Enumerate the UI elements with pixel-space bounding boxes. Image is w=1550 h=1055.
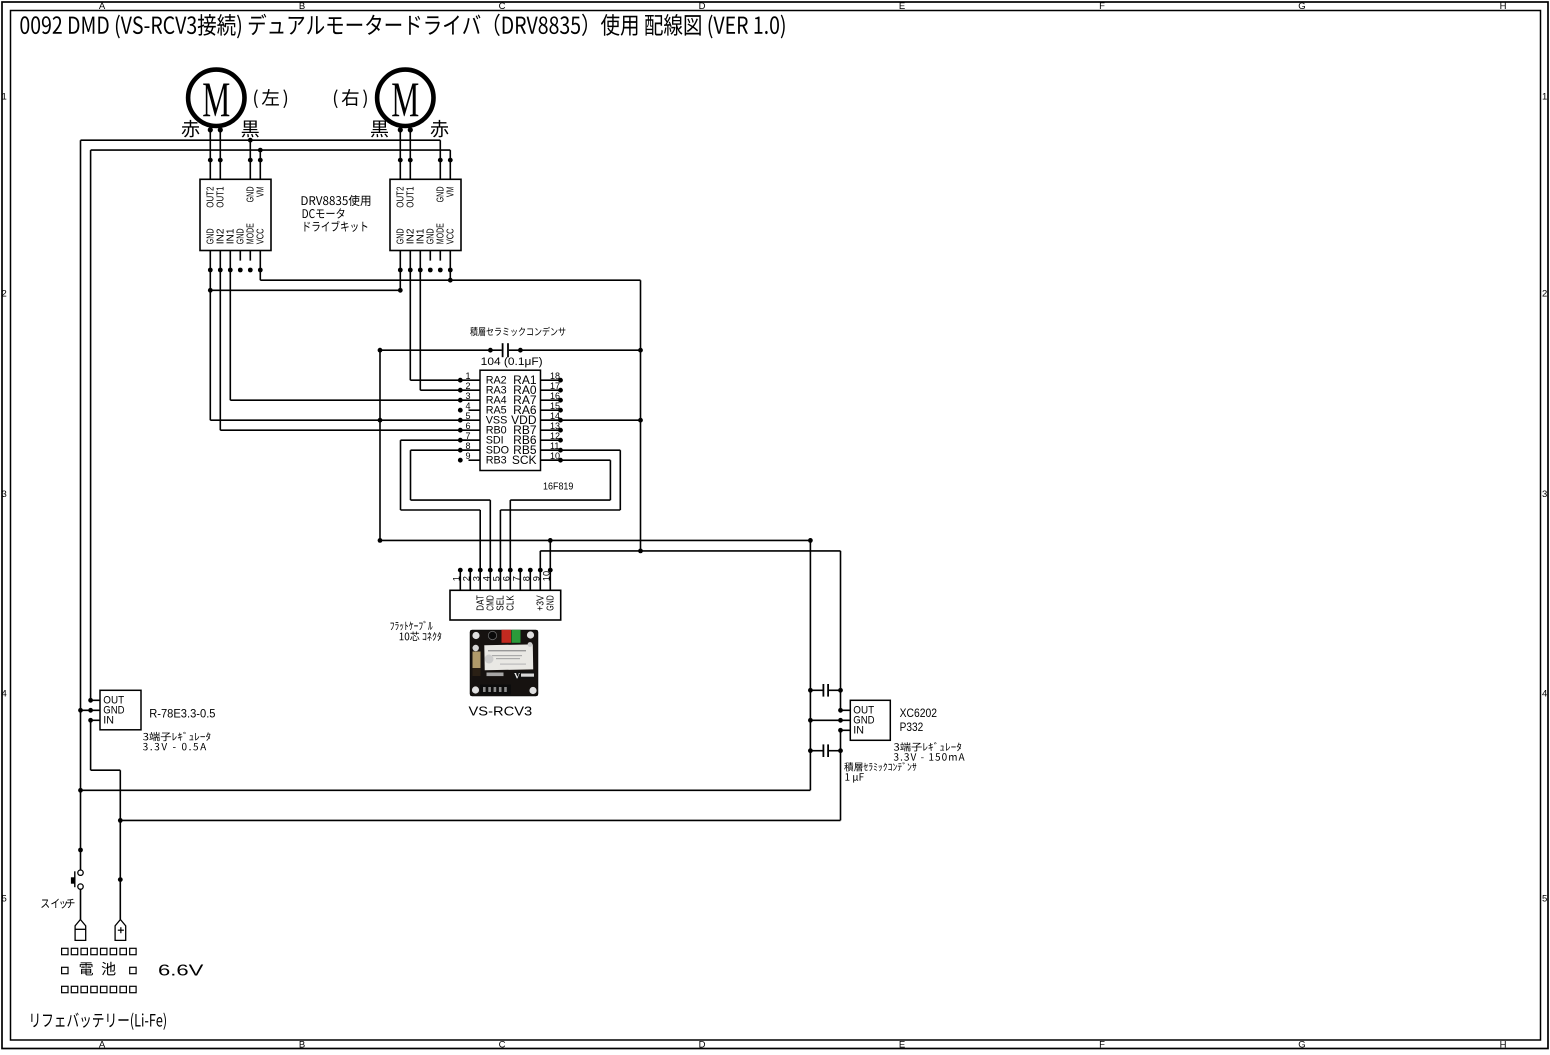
svg-text:18: 18 bbox=[550, 371, 560, 381]
text DRV8835 kit note bbox=[302, 195, 371, 206]
wire +3V rail y551 bbox=[540, 550, 840, 552]
svg-text:4: 4 bbox=[1542, 689, 1547, 700]
wire switch to battery- bbox=[80, 889, 82, 920]
wire motorR lead2 to OUT1 bbox=[409, 130, 411, 179]
pin 14 VDD bbox=[541, 419, 561, 421]
capacitor C1 bbox=[380, 349, 502, 351]
wire VCC rail bbox=[260, 279, 640, 281]
svg-text:5: 5 bbox=[465, 411, 470, 421]
junction dot GND bus left module bbox=[248, 138, 253, 143]
pin 13 RB7 bbox=[541, 429, 561, 431]
svg-text:1: 1 bbox=[465, 371, 470, 381]
svg-text:VS-RCV3: VS-RCV3 bbox=[469, 703, 533, 718]
svg-text:XC6202: XC6202 bbox=[900, 706, 938, 720]
label aka right bbox=[431, 120, 449, 138]
junction dot +3V x640 bbox=[638, 549, 643, 554]
connector pin 9 bbox=[538, 568, 543, 573]
wire GND right vertical x810 bbox=[809, 540, 811, 790]
pin 10 SCK bbox=[541, 459, 561, 461]
svg-text:2: 2 bbox=[462, 576, 472, 581]
pin 1 RA2 bbox=[460, 379, 480, 381]
junction dot XC GND bbox=[808, 718, 813, 723]
battery dashed outline bbox=[62, 948, 68, 954]
connector pin 6 bbox=[508, 568, 513, 573]
junction dot VBAT left bbox=[118, 818, 123, 823]
svg-text:5: 5 bbox=[1542, 894, 1547, 905]
svg-text:G: G bbox=[1298, 1, 1305, 12]
pin 5 VSS bbox=[460, 419, 480, 421]
IC U3 16F819 box bbox=[480, 370, 541, 470]
svg-text:OUT1: OUT1 bbox=[216, 187, 227, 208]
wire marker dot switch bbox=[78, 848, 83, 853]
svg-text:A: A bbox=[99, 1039, 106, 1050]
stub U-left GND2 bbox=[239, 251, 241, 261]
battery label bbox=[80, 962, 116, 976]
svg-text:IN: IN bbox=[853, 725, 864, 737]
junction dot x810 cap2 bbox=[808, 748, 813, 753]
svg-text:6.6V: 6.6V bbox=[158, 963, 204, 980]
junction dot VM bus left module bbox=[258, 148, 263, 153]
wire U-left VCC down bbox=[259, 251, 261, 281]
svg-text:D: D bbox=[699, 1, 706, 12]
svg-text:2: 2 bbox=[465, 381, 470, 391]
wire U-right IN1 down bbox=[419, 251, 421, 391]
svg-text:SCK: SCK bbox=[512, 453, 537, 467]
svg-text:15: 15 bbox=[550, 401, 560, 411]
junction dot GND x810 bbox=[808, 538, 813, 543]
wire +3V x840 upper bbox=[840, 551, 842, 710]
svg-text:B: B bbox=[299, 1, 305, 12]
wire GND bottom rail bbox=[81, 789, 811, 791]
wire RB0 from U-left IN2 bbox=[220, 429, 460, 431]
svg-text:4: 4 bbox=[465, 401, 470, 411]
svg-text:4: 4 bbox=[482, 576, 492, 581]
junction dot x840 cap1 bbox=[838, 688, 843, 693]
pin 7 SDI bbox=[460, 439, 480, 441]
svg-text:3: 3 bbox=[1542, 489, 1547, 500]
svg-text:16F819: 16F819 bbox=[543, 480, 574, 492]
battery type note bbox=[31, 1013, 166, 1030]
svg-text:C: C bbox=[499, 1039, 506, 1050]
svg-text:GND: GND bbox=[546, 595, 557, 610]
wire VM bus to U-left VM bbox=[259, 150, 261, 179]
pin 11 RB5 bbox=[541, 449, 561, 451]
pin 12 RB6 bbox=[541, 439, 561, 441]
regulator U5 XC6202 box bbox=[850, 700, 890, 740]
label hidari bbox=[254, 89, 287, 108]
svg-text:IN: IN bbox=[103, 715, 114, 727]
svg-text:VCC: VCC bbox=[256, 228, 267, 244]
wire RB5 SEL loop bbox=[541, 449, 621, 451]
svg-text:13: 13 bbox=[550, 421, 560, 431]
svg-text:H: H bbox=[1500, 1039, 1507, 1050]
connector pin 7 bbox=[519, 570, 521, 590]
svg-text:6: 6 bbox=[502, 576, 512, 581]
svg-text:10: 10 bbox=[542, 571, 552, 581]
connector pin 2 bbox=[469, 570, 471, 590]
wire motorR lead1 to OUT2 bbox=[399, 130, 401, 179]
stub U-left MODE bbox=[249, 251, 251, 261]
regulator U4 R-78E box bbox=[100, 690, 141, 730]
wire pin9 +3V riser bbox=[539, 551, 541, 590]
svg-text:7: 7 bbox=[512, 576, 522, 581]
wire VDD to x640 bbox=[541, 419, 641, 421]
stub U-right GND2 bbox=[429, 251, 431, 261]
connector pin 5 bbox=[498, 568, 503, 573]
wire SDO loop bbox=[411, 449, 481, 451]
svg-text:P332: P332 bbox=[900, 720, 924, 734]
wire RA4 from U-left IN1 bbox=[230, 399, 460, 401]
wire marker dot battery+ bbox=[118, 877, 123, 882]
svg-text:E: E bbox=[899, 1, 905, 12]
svg-text:14: 14 bbox=[550, 411, 560, 421]
wire XC IN x840 lower bbox=[840, 730, 842, 820]
pin 16 RA7 bbox=[541, 399, 561, 401]
svg-text:1: 1 bbox=[452, 576, 462, 581]
wire VM bus corner to U-right VM bbox=[449, 150, 451, 179]
svg-text:M: M bbox=[391, 73, 419, 128]
wire battery+ vertical bbox=[119, 770, 121, 919]
svg-text:OUT1: OUT1 bbox=[406, 187, 417, 208]
wire R78 IN down bbox=[90, 720, 92, 770]
wire GND vertical x380 bbox=[379, 350, 381, 540]
wire motorL lead2 to OUT1 bbox=[219, 130, 221, 179]
wire U-left GND down bbox=[209, 251, 211, 421]
capacitor C2 1uF top bbox=[810, 689, 822, 691]
pin 15 RA6 bbox=[541, 409, 561, 411]
label kuro right bbox=[371, 121, 388, 138]
bus GND top bbox=[81, 139, 441, 141]
svg-text:1: 1 bbox=[1542, 92, 1547, 103]
svg-text:11: 11 bbox=[550, 441, 559, 451]
wire U-left IN1 down bbox=[229, 251, 231, 401]
junction dot R78 GND bbox=[78, 708, 83, 713]
svg-text:3: 3 bbox=[465, 391, 470, 401]
wire GND bus corner to U-right GND bbox=[439, 140, 441, 179]
svg-text:V: V bbox=[514, 671, 521, 681]
wire U-left IN2 down bbox=[219, 251, 221, 431]
wire motorL lead1 to OUT2 bbox=[209, 130, 211, 179]
pin 3 RA4 bbox=[460, 399, 480, 401]
wire pin10 GND riser bbox=[549, 540, 551, 590]
wire GND left vertical bbox=[80, 140, 82, 870]
wire U-right VCC down bbox=[449, 251, 451, 281]
svg-text:D: D bbox=[699, 1039, 706, 1050]
svg-text:4: 4 bbox=[2, 689, 7, 700]
svg-text:H: H bbox=[1500, 1, 1507, 12]
junction dot x840 cap2 bbox=[838, 748, 843, 753]
XC6202 pin stubs bbox=[841, 709, 851, 711]
pin 18 RA1 bbox=[541, 379, 561, 381]
wire SDI loop bbox=[401, 439, 481, 441]
DRV8835 module U-right box bbox=[390, 179, 461, 250]
wire SCK CLK loop bbox=[541, 459, 611, 461]
capacitor C1 104 note bbox=[470, 327, 565, 336]
svg-text:CLK: CLK bbox=[506, 595, 517, 611]
svg-text:2: 2 bbox=[1542, 289, 1547, 300]
pin dots module bottoms bbox=[208, 268, 213, 273]
svg-text:VCC: VCC bbox=[446, 228, 457, 244]
junction dot GND bottom left bbox=[78, 788, 83, 793]
svg-text:5: 5 bbox=[492, 576, 502, 581]
wire RA3 from U-right IN1 bbox=[420, 389, 460, 391]
svg-text:C: C bbox=[499, 1, 506, 12]
junction dot VCC right bbox=[448, 278, 453, 283]
label kuro left bbox=[242, 121, 259, 138]
svg-text:F: F bbox=[1099, 1, 1105, 12]
svg-text:M: M bbox=[202, 73, 230, 128]
wire VM left vertical bbox=[90, 150, 92, 700]
label migi bbox=[334, 89, 367, 108]
pin 6 RB0 bbox=[460, 429, 480, 431]
battery terminal plus bbox=[115, 920, 126, 941]
title text bbox=[20, 14, 784, 39]
label aka left bbox=[182, 120, 200, 138]
junction dot GND x380 bbox=[378, 538, 383, 543]
connector pin 1 bbox=[459, 570, 461, 590]
svg-text:104 (0.1μF): 104 (0.1μF) bbox=[481, 356, 543, 368]
junction dot GND tie left bbox=[208, 288, 213, 293]
wire GND tie between modules bbox=[210, 289, 400, 291]
svg-text:VM: VM bbox=[256, 187, 267, 198]
svg-text:17: 17 bbox=[550, 381, 560, 391]
motor M left bbox=[188, 70, 244, 126]
wire GND rail y540 bbox=[380, 539, 810, 541]
svg-text:12: 12 bbox=[550, 431, 560, 441]
svg-text:F: F bbox=[1099, 1039, 1105, 1050]
pin 9 RB3 bbox=[469, 459, 481, 461]
switch SW1 bbox=[78, 870, 83, 875]
motor M right bbox=[377, 70, 433, 126]
connector pin 8 bbox=[529, 570, 531, 590]
R-78E pin stubs bbox=[91, 699, 100, 701]
battery terminal minus bbox=[75, 920, 86, 941]
svg-text:B: B bbox=[299, 1039, 305, 1050]
svg-text:VM: VM bbox=[446, 187, 457, 198]
junction dot GND tie right bbox=[398, 288, 403, 293]
svg-text:2: 2 bbox=[2, 289, 7, 300]
junction dots motor terminals bbox=[208, 127, 213, 132]
connector pin 4 bbox=[488, 568, 493, 573]
svg-text:9: 9 bbox=[465, 451, 470, 461]
VS-RCV3 photo bbox=[470, 630, 538, 696]
pin 2 RA3 bbox=[460, 389, 480, 391]
junction dot x810 cap1 bbox=[808, 688, 813, 693]
connector pin 10 bbox=[548, 568, 553, 573]
svg-text:E: E bbox=[899, 1039, 905, 1050]
svg-text:R-78E3.3-0.5: R-78E3.3-0.5 bbox=[149, 706, 215, 720]
wire VCC vertical x640 bbox=[640, 280, 642, 551]
wire U-right IN2 down bbox=[409, 251, 411, 381]
pin 17 RA0 bbox=[541, 389, 561, 391]
wire GND bus to U-left GND bbox=[249, 140, 251, 179]
svg-text:5: 5 bbox=[2, 894, 7, 905]
connector pin 3 bbox=[478, 568, 483, 573]
svg-text:16: 16 bbox=[550, 391, 560, 401]
wire VBAT bottom rail bbox=[120, 819, 840, 821]
DRV8835 module U-left box bbox=[200, 179, 271, 250]
svg-text:10: 10 bbox=[550, 451, 560, 461]
bus VM top bbox=[91, 149, 451, 151]
svg-text:G: G bbox=[1298, 1039, 1305, 1050]
svg-text:8: 8 bbox=[465, 441, 470, 451]
svg-text:A: A bbox=[99, 1, 106, 12]
wire U-right GND down bbox=[399, 251, 401, 291]
svg-text:3: 3 bbox=[472, 576, 482, 581]
junction dot GND pin10 bbox=[548, 538, 553, 543]
pin 4 RA5 bbox=[469, 409, 481, 411]
svg-text:7: 7 bbox=[465, 431, 470, 441]
svg-text:9: 9 bbox=[532, 576, 542, 581]
switch label bbox=[41, 899, 49, 907]
svg-text:RB3: RB3 bbox=[486, 455, 507, 467]
svg-text:6: 6 bbox=[465, 421, 470, 431]
svg-text:1: 1 bbox=[2, 92, 7, 103]
wire VSS from U-left GND bbox=[210, 419, 460, 421]
junction dot VSS x380 bbox=[378, 418, 383, 423]
connector J1 box bbox=[450, 590, 561, 620]
capacitor C3 1uF bottom bbox=[810, 750, 822, 752]
pin dots module tops bbox=[208, 158, 213, 163]
junction dot VDD x640 bbox=[638, 418, 643, 423]
svg-text:3: 3 bbox=[2, 489, 7, 500]
svg-text:8: 8 bbox=[522, 576, 532, 581]
pin 8 SDO bbox=[460, 449, 480, 451]
R-78E notes bbox=[143, 732, 210, 741]
wire RA2 from U-right IN2 bbox=[410, 379, 460, 381]
flat cable note bbox=[390, 621, 432, 631]
stub U-right MODE bbox=[439, 251, 441, 261]
